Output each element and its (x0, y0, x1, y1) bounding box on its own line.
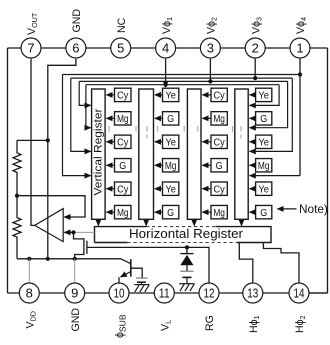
cell col4 row1 Ye (256, 88, 272, 101)
junction dot node R1 R2 (15, 194, 19, 198)
wire pin14 to pin1 outer (309, 292, 327, 294)
package outline right edge (327, 48, 329, 293)
wire pin4 Vphi1 drop with arrow into cell top (165, 59, 167, 87)
arrow cell col2 row2 to register (155, 117, 163, 119)
arrow cell col3 row2 to register (202, 117, 211, 119)
svg-text:GND: GND (71, 9, 83, 33)
pin 7 circle (21, 38, 41, 58)
reset transistor Q2 wiring (74, 232, 84, 258)
cell col1 row2 Mg (115, 112, 132, 125)
capacitor C1 plate 2 (137, 281, 146, 283)
svg-text:Cy: Cy (117, 184, 129, 195)
cell col3 row1 Cy (211, 88, 227, 101)
svg-text:NC: NC (116, 17, 128, 33)
pin 11 circle (154, 283, 174, 303)
cell col4 row4 Mg (256, 159, 272, 172)
svg-text:G: G (260, 114, 267, 125)
right drop bus3 to bar4 gate 2 (250, 81, 288, 127)
arrow bar1 to horizontal register (97, 219, 99, 225)
cell col2 row4 Mg (163, 159, 179, 172)
VDD rail (17, 258, 121, 260)
cell col4 row6 G (256, 205, 272, 218)
arrow cell col1 row2 to register (107, 117, 115, 119)
svg-text:Cy: Cy (117, 137, 129, 148)
pin 12 circle (199, 283, 219, 303)
arrow bar4 to horizontal register (241, 219, 243, 225)
pin 9 circle (65, 283, 85, 303)
svg-text:RG: RG (204, 315, 216, 331)
arrow cell col2 row4 to register (155, 164, 163, 166)
floating diffusion wire from horizontal register (74, 231, 95, 233)
pin 8 circle (19, 283, 39, 303)
transistor Q1 substrate BJT collector (121, 259, 131, 264)
resistor R1 (13, 140, 21, 195)
svg-text:10: 10 (114, 285, 125, 300)
svg-text:Ye: Ye (165, 137, 176, 148)
arrow cell col2 row3 to register (155, 141, 163, 143)
svg-text:Mg: Mg (213, 114, 225, 125)
junction dot rail pin9 (73, 257, 77, 261)
svg-text:G: G (167, 208, 174, 219)
reset gate wire to pin 12 RG (87, 247, 209, 282)
cell col2 row2 G (163, 112, 179, 125)
dashed continuation ticks (109, 126, 241, 138)
left drop bus4 to bar1 gate 2 (86, 85, 91, 128)
arrow cell col2 row1 to register (155, 94, 163, 96)
cell col4 row2 G (256, 112, 272, 125)
svg-text:6: 6 (72, 40, 79, 55)
resistor R2 (13, 196, 21, 259)
wire pin8 stub (28, 259, 30, 283)
cell col1 row1 Cy (115, 88, 132, 101)
arrow cell col3 row5 to register (202, 188, 211, 190)
svg-text:Ye: Ye (165, 91, 176, 102)
arrow cell col3 row1 to register (202, 94, 211, 96)
wire Hphi2 to pin14 (263, 243, 299, 283)
right drop bus4 to bar4 gate 1 (250, 85, 280, 106)
pin 4 circle (156, 38, 176, 58)
svg-text:Cy: Cy (117, 91, 129, 102)
arrow cell col3 row6 to register (202, 211, 211, 213)
svg-text:12: 12 (204, 285, 215, 300)
wire pin3 Vphi2 drop (209, 59, 211, 82)
arrow cell col4 row1 to register (250, 94, 256, 96)
right drop bus1 to bar4 gate 4 (250, 175, 300, 177)
GND line to resistor R1 (17, 139, 48, 141)
junction dot rail pin8 (27, 257, 31, 261)
wire pin6 GND down-left (48, 59, 76, 259)
wire pin1 Vphi4 drop continuing to right feed (299, 59, 301, 176)
svg-text:7: 7 (27, 40, 34, 55)
diode D1 (180, 247, 193, 271)
cell col1 row3 Cy (115, 135, 132, 148)
svg-text:Ye: Ye (258, 91, 269, 102)
cell col2 row1 Ye (163, 88, 179, 101)
bus Vphi2 (79, 80, 287, 82)
svg-text:Mg: Mg (165, 161, 177, 172)
pin 13 circle (243, 283, 263, 303)
svg-text:Ye: Ye (258, 137, 269, 148)
junction dots top buses (164, 83, 168, 87)
svg-text:Horizontal Register: Horizontal Register (129, 226, 244, 241)
arrow cell col3 row3 to register (202, 141, 211, 143)
amp lower input arrow (64, 231, 73, 233)
arrow cell col1 row1 to register (107, 94, 115, 96)
svg-text:Mg: Mg (117, 208, 129, 219)
transistor Q1 emitter with arrow (121, 272, 131, 277)
op-amp output amplifier triangle (35, 209, 64, 242)
wire pin9 stub (74, 259, 76, 283)
cell col1 row5 Cy (115, 182, 132, 195)
capacitor C2 plate 2 (182, 276, 191, 278)
svg-text:Cy: Cy (214, 184, 226, 195)
vertical register bar 1 (92, 89, 106, 219)
junction dot RG diode (185, 245, 189, 249)
svg-text:Mg: Mg (213, 208, 225, 219)
CELLS (107, 88, 272, 219)
svg-text:14: 14 (294, 285, 305, 300)
arrow cell col4 row3 to register (250, 141, 256, 143)
right drop bus2 to bar4 gate 3 (250, 78, 293, 151)
arrow cell col1 row5 to register (107, 188, 115, 190)
arrow cell col4 row5 to register (250, 188, 256, 190)
pin 5 circle (111, 38, 131, 58)
arrow cell col2 row6 to register (155, 211, 163, 213)
pin 1 circle (290, 38, 310, 58)
cell col3 row6 Mg (211, 205, 227, 218)
wire node to amp upper input (17, 196, 85, 217)
wire Hphi1 to pin13 (239, 243, 253, 283)
wire pin2 Vphi3 drop (254, 59, 256, 78)
left drop bus1 to bar1 gate 4 (63, 75, 91, 176)
pin 10 circle (109, 283, 129, 303)
svg-text:1: 1 (296, 40, 303, 55)
cell col3 row4 G (211, 159, 227, 172)
svg-text:9: 9 (71, 285, 78, 300)
svg-text:Ye: Ye (165, 184, 176, 195)
arrow bar2 to horizontal register (145, 219, 147, 225)
vertical register bar 3 (187, 89, 201, 219)
capacitor C1 plate 1 (136, 277, 147, 279)
transistor Q1 base bar (130, 259, 132, 276)
svg-text:Mg: Mg (258, 161, 270, 172)
svg-text:Note): Note) (299, 202, 328, 216)
svg-text:G: G (119, 161, 126, 172)
arrow cell col1 row6 to register (107, 211, 115, 213)
left drop bus3 to bar1 gate 1 (79, 81, 90, 105)
junction dot FD node (71, 230, 75, 234)
pin 3 circle (200, 38, 220, 58)
svg-text:13: 13 (247, 285, 258, 300)
cell col2 row5 Ye (163, 182, 179, 195)
svg-text:GND: GND (70, 308, 82, 332)
package outline bottom edge (8, 292, 328, 294)
arrow cell col4 row4 to register (250, 164, 256, 166)
cell col3 row3 Cy (211, 135, 227, 148)
arrow cell col1 row3 to register (107, 141, 115, 143)
svg-text:5: 5 (117, 40, 124, 55)
junction dot rail GND drop (46, 257, 50, 261)
cell col1 row4 G (115, 159, 132, 172)
svg-text:G: G (216, 161, 223, 172)
cell col3 row2 Mg (211, 112, 227, 125)
Q1 base lead (131, 268, 142, 278)
wire pin7 VOUT to amplifier output (31, 59, 35, 226)
pin 14 circle (289, 283, 309, 303)
svg-text:8: 8 (26, 285, 33, 300)
bus Vphi4 (top) (63, 74, 301, 76)
substrate ground symbol near D1 (179, 277, 194, 291)
svg-text:G: G (167, 114, 174, 125)
cell col3 row5 Cy (211, 182, 227, 195)
svg-text:G: G (260, 208, 267, 219)
pin 6 circle (66, 38, 86, 58)
capacitor C2 plate 1 (180, 270, 193, 272)
cell col4 row5 Ye (256, 182, 272, 195)
svg-text:Ye: Ye (258, 184, 269, 195)
cell col2 row6 G (163, 205, 179, 218)
left drop bus2 to bar1 gate 3 (71, 78, 91, 151)
arrow cell col4 row2 to register (250, 117, 256, 119)
bus Vphi3 (71, 77, 292, 79)
reset transistor gate bar (86, 241, 88, 254)
cell col2 row3 Ye (163, 135, 179, 148)
pin 2 circle (245, 38, 265, 58)
bus Vphi1 (bottom) (86, 84, 279, 86)
arrow cell col2 row5 to register (155, 188, 163, 190)
svg-text:11: 11 (159, 285, 170, 300)
vertical register bar 2 (139, 89, 154, 219)
svg-text:Cy: Cy (214, 137, 226, 148)
vertical register bar 4 (235, 89, 248, 219)
horizontal register box (95, 227, 272, 243)
arrow bar3 to horizontal register (193, 219, 195, 225)
svg-text:2: 2 (252, 40, 259, 55)
arrow cell col1 row4 to register (107, 164, 115, 166)
svg-text:3: 3 (207, 40, 214, 55)
wire emitter to pin10 (118, 277, 120, 283)
svg-text:Mg: Mg (117, 114, 129, 125)
svg-text:Cy: Cy (214, 91, 226, 102)
cell col1 row6 Mg (115, 205, 132, 218)
arrow cell col3 row4 to register (202, 164, 211, 166)
svg-text:4: 4 (162, 40, 169, 55)
package outline top edge (8, 47, 328, 49)
junction dot GND R1 (46, 138, 50, 142)
cell col4 row3 Ye (256, 135, 272, 148)
arrow cell col4 row6 to register (250, 211, 256, 213)
substrate ground symbol near Q1 (134, 282, 149, 292)
note arrow (278, 208, 297, 210)
package outline left edge (7, 48, 9, 293)
svg-text:Vertical Register: Vertical Register (93, 108, 105, 195)
